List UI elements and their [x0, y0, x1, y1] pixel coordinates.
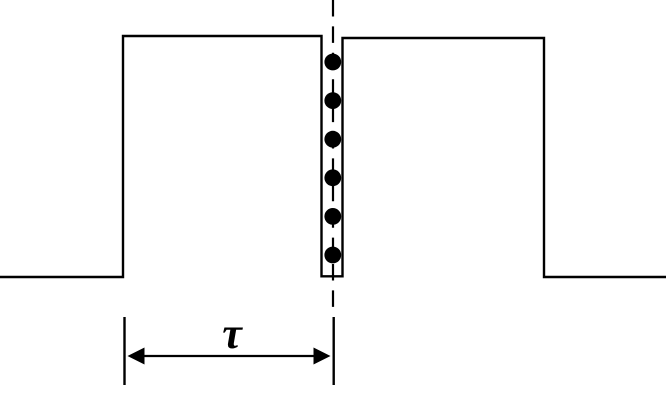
svg-text:τ: τ: [222, 309, 243, 358]
